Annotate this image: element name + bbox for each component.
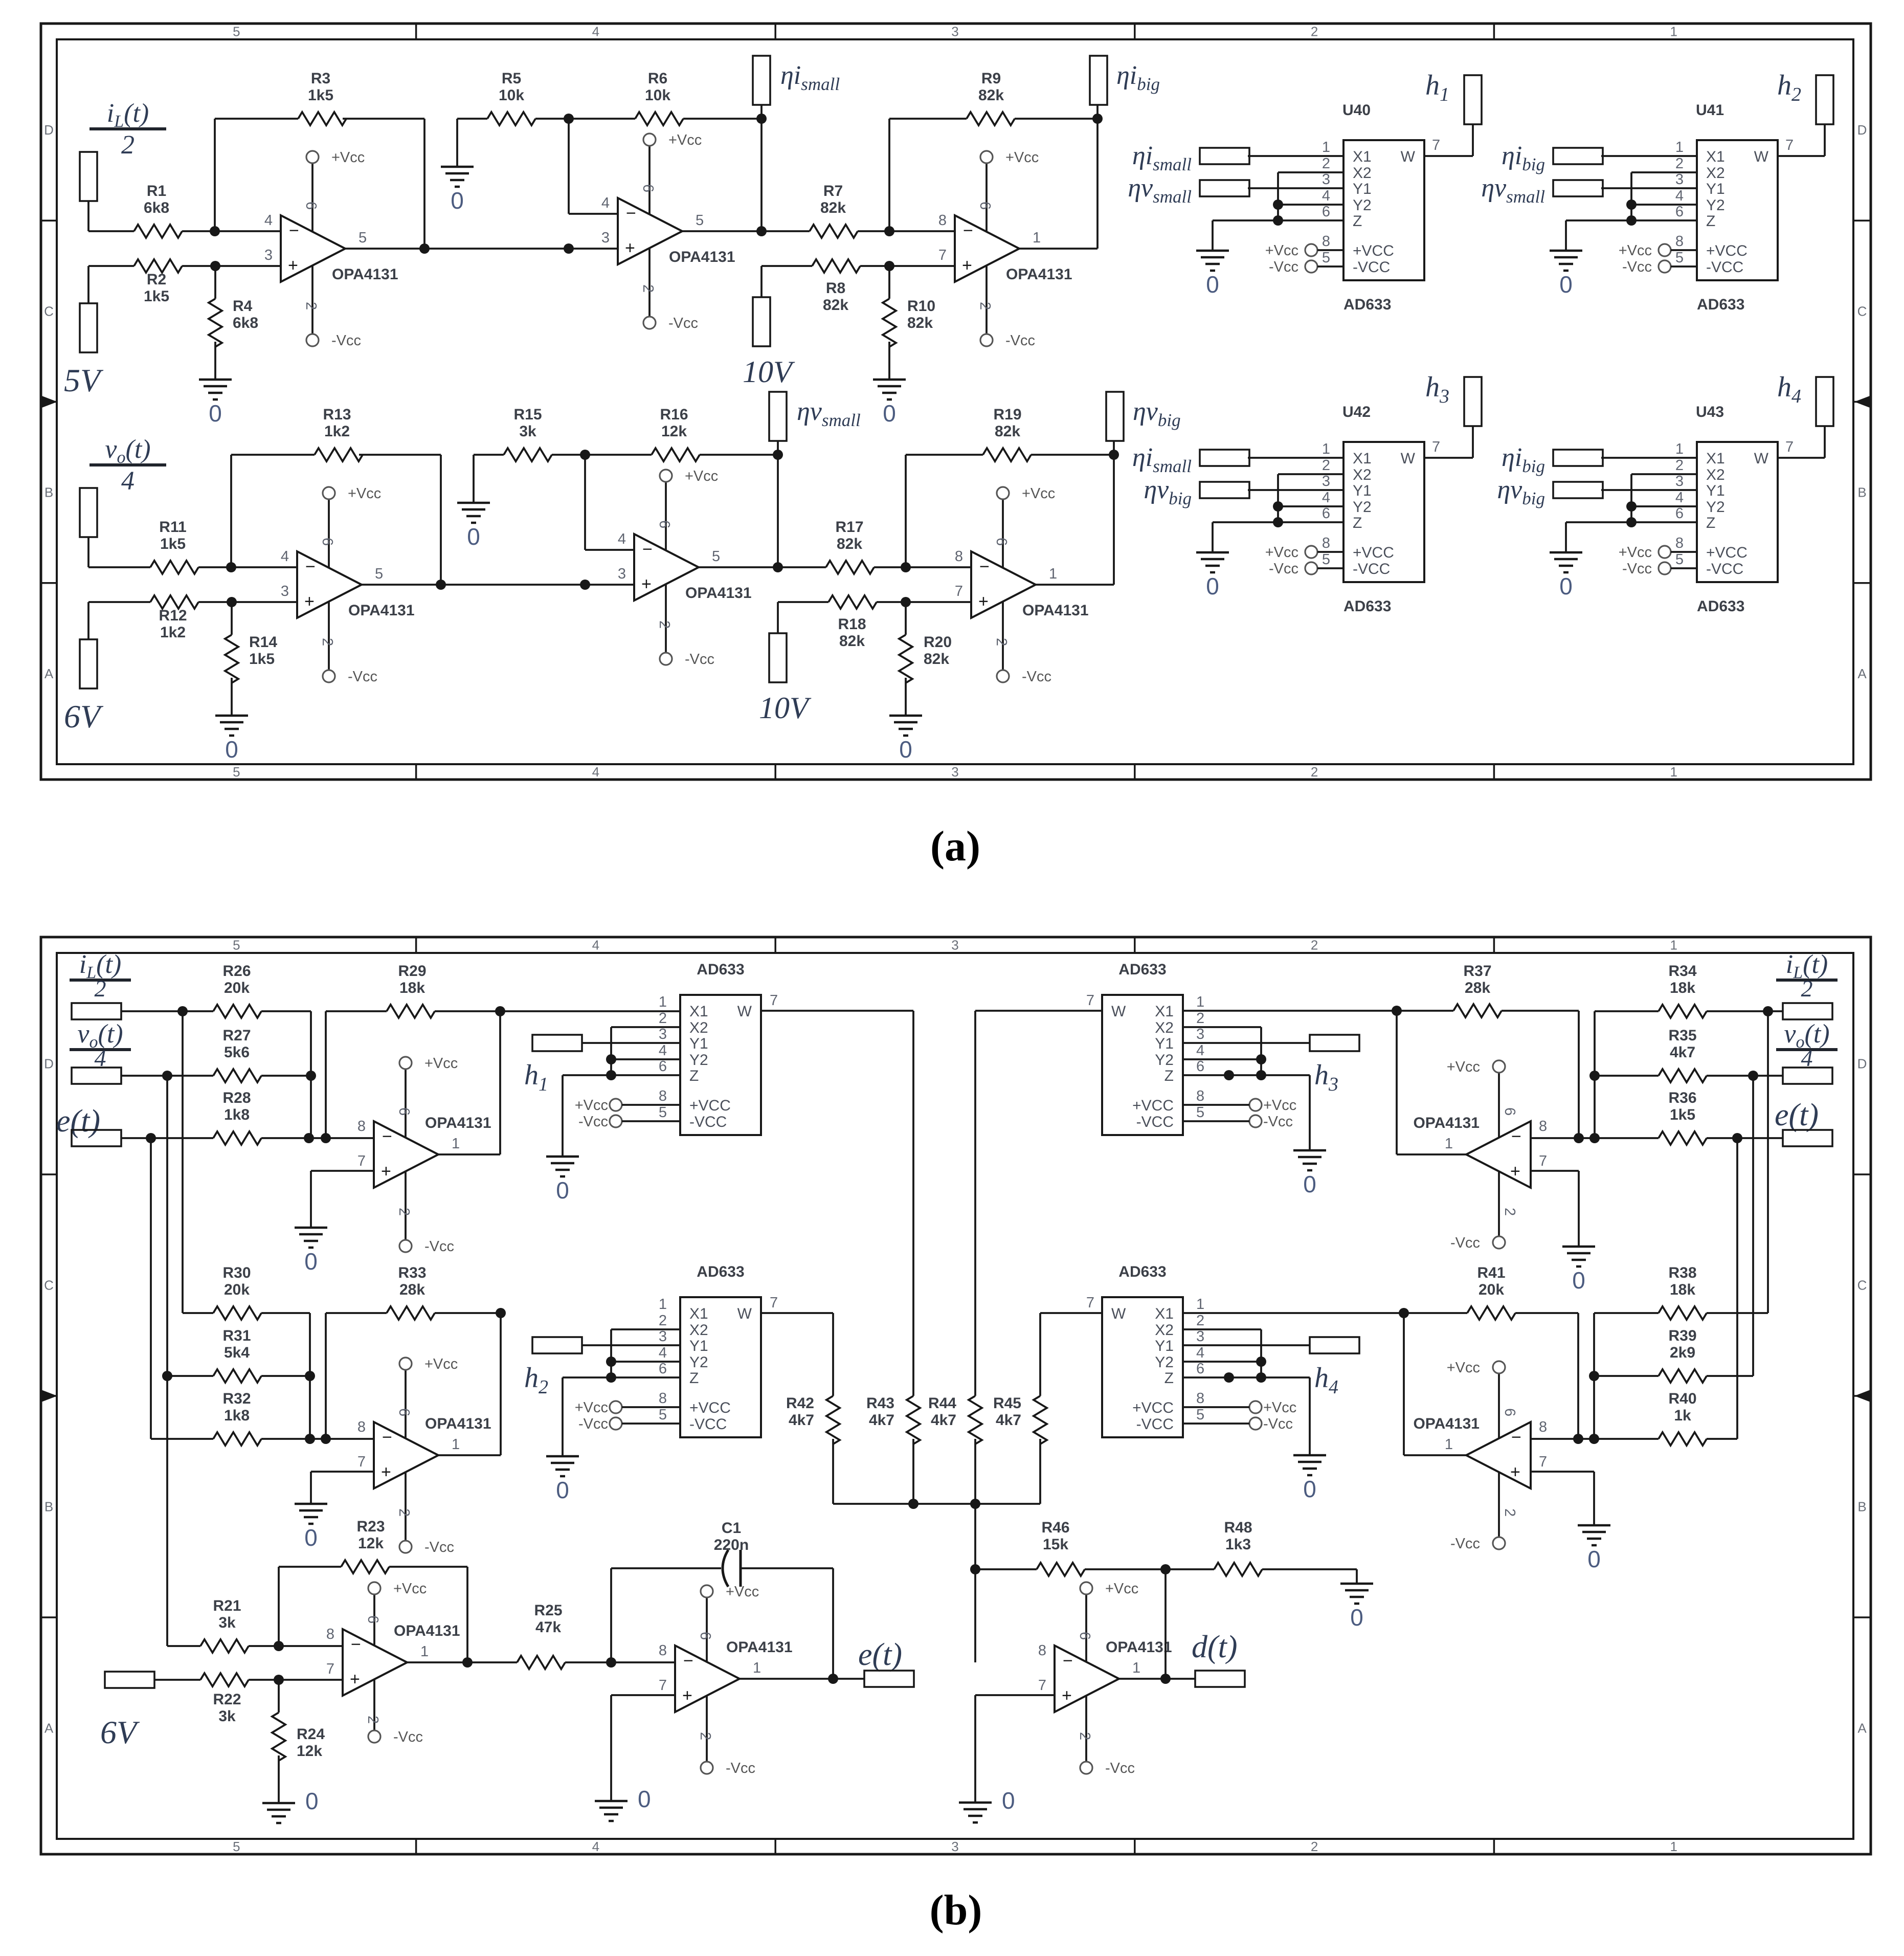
svg-text:7: 7 [1086, 992, 1094, 1009]
wire to R8 [761, 265, 812, 267]
svg-text:Z: Z [1164, 1370, 1174, 1387]
svg-text:C: C [44, 1278, 54, 1293]
op-amp U5D OPA4131 [675, 1646, 740, 1712]
svg-text:0: 0 [467, 523, 480, 550]
svg-text:4: 4 [264, 212, 273, 229]
ground [441, 166, 474, 168]
svg-text:4: 4 [592, 24, 599, 39]
junction M2 Y2 tie [606, 1357, 616, 1367]
svg-text:5: 5 [375, 566, 383, 582]
svg-text:1: 1 [1322, 139, 1330, 155]
junction R16/port [773, 450, 783, 460]
svg-text:7: 7 [1785, 439, 1794, 455]
sheet (a) frame column tick top 1 [415, 24, 417, 39]
svg-text:+Vcc: +Vcc [331, 149, 365, 166]
svg-text:−: − [382, 1127, 392, 1146]
wire U6B plus [1531, 1471, 1594, 1473]
svg-text:R21: R21 [213, 1597, 241, 1614]
svg-text:4: 4 [601, 195, 610, 211]
junction R10 [884, 261, 894, 271]
wire U5C out to R25 [407, 1661, 517, 1663]
svg-text:0: 0 [883, 400, 896, 427]
wire output stage1 to stage2 plus [345, 248, 618, 250]
multiplier M1 AD633 [680, 995, 761, 1135]
ground [959, 1802, 992, 1804]
svg-text:+Vcc: +Vcc [1619, 242, 1652, 259]
resistor R31 5k4 [213, 1369, 261, 1383]
svg-text:+: + [625, 238, 635, 258]
svg-text:1: 1 [1445, 1136, 1453, 1152]
resistor R15 3k [504, 448, 552, 461]
op-amp U1C OPA4131 [955, 215, 1019, 282]
junction R46 node [970, 1564, 980, 1574]
-Vcc terminal U40 [1305, 260, 1317, 273]
wire R25 to integrator minus [565, 1661, 675, 1663]
svg-text:4: 4 [659, 1042, 667, 1059]
wire U6B minus to R40 [1531, 1438, 1659, 1440]
junction stage3 minus [884, 226, 894, 236]
connector port P9 [769, 633, 787, 682]
wire Z to ground U40 [1212, 220, 1214, 251]
svg-text:4: 4 [121, 466, 135, 496]
wire R13 to corner [359, 454, 441, 456]
svg-text:+VCC: +VCC [1132, 1399, 1174, 1416]
svg-text:Y2: Y2 [1706, 499, 1725, 516]
svg-text:6k8: 6k8 [144, 199, 169, 216]
wire M3 Z [1183, 1074, 1310, 1076]
junction R39/vertical [1589, 1371, 1599, 1381]
wire port5 stub [1113, 441, 1115, 455]
wire M4 X1 rail [1183, 1312, 1404, 1314]
wire -VCC U42 [1317, 567, 1343, 569]
junction minus node [226, 562, 236, 572]
wire X1 input U41 [1601, 155, 1697, 157]
svg-text:0: 0 [1206, 573, 1219, 599]
wire Z U40 [1213, 219, 1343, 221]
svg-text:2: 2 [319, 638, 335, 646]
wire v_o to R27 [121, 1075, 213, 1077]
op-amp U2B OPA4131 [634, 534, 699, 601]
connector port P2 [80, 303, 97, 352]
svg-text:2: 2 [977, 302, 993, 310]
svg-text:15k: 15k [1043, 1536, 1068, 1553]
svg-text:4: 4 [1196, 1042, 1204, 1059]
svg-text:47k: 47k [535, 1619, 561, 1636]
svg-text:1: 1 [1670, 1839, 1677, 1854]
svg-text:5: 5 [1675, 551, 1684, 568]
resistor R28 1k8 [213, 1131, 261, 1145]
wire to R14 [231, 602, 233, 635]
connector port e(t) out [864, 1671, 914, 1687]
junction Z tie [1273, 517, 1283, 527]
svg-text:−: − [1511, 1428, 1521, 1447]
svg-text:-Vcc: -Vcc [393, 1729, 423, 1745]
svg-text:−: − [1511, 1127, 1521, 1146]
svg-text:6: 6 [365, 1615, 381, 1624]
svg-text:2: 2 [396, 1208, 412, 1216]
wire to R13 [231, 454, 315, 456]
svg-text:A: A [1857, 666, 1867, 681]
svg-text:R24: R24 [297, 1726, 325, 1743]
connector port P4 [753, 297, 770, 346]
wire M3 W output [975, 1010, 1102, 1012]
wire R23 to corner [389, 1566, 467, 1568]
op-amp U1A OPA4131 [281, 215, 345, 282]
svg-text:OPA4131: OPA4131 [332, 266, 398, 283]
wire port3 stub [777, 441, 779, 455]
wire node to R46 [975, 1568, 1037, 1570]
svg-text:R17: R17 [835, 519, 863, 536]
svg-text:A: A [1857, 1721, 1867, 1736]
svg-text:20k: 20k [1479, 1281, 1504, 1298]
svg-text:6: 6 [1322, 204, 1330, 220]
+Vcc terminal U43 [1659, 546, 1671, 558]
wire R41 to corner [1515, 1312, 1578, 1314]
svg-text:R7: R7 [823, 183, 843, 199]
wire output up to rail [1403, 1313, 1405, 1455]
wire R31 to vertical [261, 1375, 310, 1377]
wire to R3 [215, 118, 298, 120]
svg-text:−: − [642, 540, 653, 559]
svg-text:10V: 10V [743, 355, 795, 389]
wire R16 to junction [700, 454, 778, 456]
wire output up to feedback [1096, 119, 1099, 249]
-Vcc terminal U42 [1305, 562, 1317, 574]
svg-text:-Vcc: -Vcc [1263, 1416, 1293, 1432]
wire M1 X2 [611, 1026, 680, 1028]
resistor R7 82k [810, 225, 858, 238]
wire to R4 [214, 266, 216, 299]
svg-text:W: W [1754, 450, 1769, 467]
ground [262, 1802, 295, 1805]
connector port 6V [105, 1672, 154, 1688]
svg-text:X2: X2 [1155, 1019, 1174, 1036]
wire R28 to op-amp minus [261, 1137, 374, 1139]
connector port P8 [769, 392, 787, 441]
resistor R21 3k [200, 1639, 249, 1653]
svg-text:R20: R20 [924, 634, 952, 651]
svg-text:X2: X2 [689, 1322, 708, 1339]
svg-text:2: 2 [1322, 457, 1330, 474]
svg-text:R19: R19 [993, 406, 1021, 423]
wire R5 to R6 [535, 118, 635, 120]
svg-text:8: 8 [1675, 233, 1684, 250]
connector port U41 Y1 input [1553, 180, 1603, 196]
svg-text:7: 7 [1432, 137, 1440, 153]
wire X2-Y2-Z tie U42 [1277, 474, 1279, 522]
svg-text:1: 1 [1049, 566, 1057, 582]
ground [1562, 1246, 1595, 1248]
wire to R24 [278, 1680, 280, 1713]
wire M4 Z [1183, 1376, 1310, 1379]
+Vcc terminal U40 [1305, 244, 1317, 256]
svg-text:OPA4131: OPA4131 [394, 1622, 460, 1639]
svg-text:C: C [44, 303, 54, 319]
svg-text:R34: R34 [1668, 963, 1696, 980]
junction e tap [146, 1133, 156, 1143]
resistor R30 20k [213, 1306, 261, 1320]
sheet (a) frame column tick bottom 2 [774, 764, 776, 780]
junction R6/port [756, 114, 767, 124]
wire tap to R21 [167, 1645, 200, 1647]
svg-text:W: W [1111, 1003, 1126, 1020]
svg-text:Y1: Y1 [689, 1035, 708, 1052]
resistor R24 12k [272, 1713, 285, 1761]
junction summing node 1 [304, 1133, 314, 1143]
sheet (b) frame row tick right 3 [1853, 1616, 1871, 1618]
wire R22 to plus [249, 1679, 343, 1681]
sheet (a) frame right edge arrow [1854, 395, 1872, 409]
wire to R34 [1595, 1010, 1659, 1012]
wire M3 X1 rail [1183, 1010, 1397, 1012]
connector port h3 [1464, 377, 1482, 426]
svg-text:AD633: AD633 [697, 961, 744, 978]
sheet (a) frame column tick bottom 3 [1134, 764, 1136, 780]
wire feedback down [1164, 1569, 1167, 1679]
svg-text:R38: R38 [1668, 1264, 1696, 1281]
+Vcc terminal M4 [1249, 1401, 1262, 1413]
svg-text:4: 4 [1322, 188, 1330, 204]
junction Z tie [1626, 215, 1637, 226]
wire output up to rail [499, 1011, 501, 1154]
svg-text:R16: R16 [660, 406, 688, 423]
wire h4 to M4 Y1 [1183, 1344, 1310, 1346]
junction rail R43 [908, 1499, 919, 1509]
svg-text:C: C [1857, 303, 1867, 319]
svg-text:R8: R8 [826, 280, 845, 297]
wire feedback3 up [888, 119, 890, 231]
svg-text:−: − [979, 557, 990, 576]
ground [1293, 1454, 1326, 1457]
svg-text:R22: R22 [213, 1691, 241, 1708]
sheet (b) frame row tick left 3 [41, 1616, 57, 1618]
svg-text:4: 4 [592, 938, 599, 953]
svg-text:X2: X2 [1706, 165, 1725, 182]
svg-text:3: 3 [1196, 1328, 1204, 1345]
wire port5 stub [1096, 105, 1099, 119]
svg-text:U41: U41 [1696, 102, 1724, 119]
wire Z to ground U41 [1565, 220, 1567, 251]
junction M4 X1/output [1399, 1308, 1409, 1318]
svg-text:+Vcc: +Vcc [575, 1097, 608, 1114]
svg-text:−: − [626, 204, 636, 223]
op-amp U5A OPA4131 [374, 1121, 438, 1188]
wire v_o tap down to R31 [166, 1076, 168, 1376]
connector port i_L/2 (b left) [72, 1003, 121, 1019]
resistor R38 18k [1659, 1306, 1707, 1320]
svg-text:4: 4 [1196, 1345, 1204, 1361]
ground [199, 379, 232, 381]
svg-text:3: 3 [281, 583, 289, 599]
wire Y1 input U41 [1601, 187, 1697, 189]
wire Y2 U41 [1631, 204, 1697, 206]
svg-text:+Vcc: +Vcc [1619, 544, 1652, 561]
svg-text:0: 0 [451, 187, 464, 214]
wire feedback up to C1 [610, 1568, 612, 1662]
svg-text:AD633: AD633 [1343, 598, 1391, 615]
resistor R48 1k3 [1214, 1563, 1262, 1576]
svg-text:-Vcc: -Vcc [578, 1114, 608, 1130]
svg-text:82k: 82k [839, 633, 865, 650]
wire C1 to corner [741, 1567, 833, 1569]
svg-text:D: D [44, 122, 54, 138]
junction summing node C1 [305, 1434, 315, 1444]
svg-text:1: 1 [1675, 139, 1684, 155]
resistor R13 1k2 [315, 448, 363, 461]
svg-text:-VCC: -VCC [1353, 259, 1390, 276]
wire M3 X2 [1183, 1026, 1261, 1028]
svg-text:R5: R5 [502, 70, 521, 87]
wire R27 to vertical [261, 1075, 311, 1077]
junction minus node [210, 226, 220, 236]
wire R21 to minus [249, 1645, 343, 1647]
wire feedback down to output [440, 455, 442, 585]
svg-text:R3: R3 [311, 70, 330, 87]
svg-text:D: D [1857, 122, 1867, 138]
svg-text:+Vcc: +Vcc [1105, 1581, 1138, 1597]
wire to C1 [611, 1567, 721, 1569]
svg-text:D: D [1857, 1056, 1867, 1072]
wire rail to R37 [1397, 1010, 1453, 1012]
junction R5/R6 [564, 114, 574, 124]
svg-text:Z: Z [1353, 213, 1362, 230]
connector port i_L/2 (b right) [1783, 1003, 1832, 1019]
junction on stage2 plus wire [580, 580, 590, 590]
svg-text:82k: 82k [924, 651, 949, 668]
sheet (b) frame right edge arrow [1854, 1389, 1872, 1403]
sheet (b) frame column tick top 4 [1493, 937, 1495, 953]
svg-text:X1: X1 [1353, 148, 1372, 165]
junction R15/R16 [580, 450, 590, 460]
svg-text:1: 1 [1670, 24, 1677, 39]
junction R19/port/output [1109, 450, 1119, 460]
sheet (b) frame column tick bottom 3 [1134, 1839, 1136, 1854]
svg-text:8: 8 [659, 1088, 667, 1104]
svg-text:W: W [737, 1003, 752, 1020]
wire R15 to R16 [552, 454, 652, 456]
svg-text:X2: X2 [1155, 1322, 1174, 1339]
svg-text:6: 6 [659, 1058, 667, 1075]
svg-text:7: 7 [326, 1661, 334, 1677]
svg-text:6: 6 [303, 202, 319, 210]
wire e tap to R32 [151, 1438, 213, 1440]
wire R48 to ground corner [1262, 1568, 1357, 1570]
svg-text:+Vcc: +Vcc [1447, 1059, 1480, 1075]
svg-text:4: 4 [1675, 188, 1684, 204]
svg-text:U40: U40 [1342, 102, 1371, 119]
svg-text:Y1: Y1 [1706, 482, 1725, 499]
wire M1 +VCC [622, 1104, 680, 1106]
svg-text:+Vcc: +Vcc [1265, 242, 1298, 259]
svg-text:e(t): e(t) [56, 1104, 100, 1139]
wire M2 X2-Y2-Z tie [610, 1329, 612, 1377]
wire U5D plus [611, 1694, 675, 1696]
svg-text:AD633: AD633 [697, 1263, 744, 1280]
junction M3 Z [1224, 1070, 1234, 1080]
wire W output U42 [1424, 457, 1473, 459]
svg-text:+VCC: +VCC [1132, 1097, 1174, 1114]
wire U5A plus to ground [310, 1171, 312, 1228]
resistor R8 82k [812, 259, 860, 273]
sheet (b) frame column tick bottom 2 [774, 1839, 776, 1854]
svg-text:+Vcc: +Vcc [685, 468, 718, 484]
wire X2 U41 [1631, 171, 1697, 173]
svg-text:7: 7 [1086, 1295, 1094, 1311]
svg-text:6: 6 [697, 1632, 713, 1640]
svg-text:6: 6 [993, 538, 1010, 546]
svg-text:4: 4 [618, 531, 626, 547]
wire to R1 [88, 230, 134, 232]
wire U6A output [1397, 1153, 1466, 1155]
svg-text:2: 2 [1322, 155, 1330, 172]
resistor R45 4k7 [1034, 1396, 1047, 1444]
svg-text:-Vcc: -Vcc [424, 1238, 454, 1255]
wire R48 down to ground [1356, 1569, 1358, 1584]
svg-text:0: 0 [556, 1177, 569, 1204]
svg-text:2: 2 [640, 284, 656, 293]
svg-text:3: 3 [951, 1839, 958, 1854]
svg-text:8: 8 [659, 1390, 667, 1407]
svg-text:R39: R39 [1668, 1327, 1696, 1344]
svg-text:-Vcc: -Vcc [1269, 561, 1298, 577]
sheet (a) frame row tick right 2 [1853, 401, 1871, 403]
svg-text:2: 2 [656, 620, 673, 629]
wire R37 to corner [1502, 1010, 1579, 1012]
svg-text:A: A [44, 1721, 54, 1736]
wire -VCC U40 [1317, 265, 1343, 268]
svg-text:10k: 10k [499, 87, 524, 104]
svg-text:-VCC: -VCC [1706, 561, 1743, 577]
resistor R4 6k8 [209, 299, 222, 347]
svg-text:1: 1 [1033, 230, 1041, 246]
wire to R23 [279, 1566, 341, 1568]
svg-text:(a): (a) [930, 823, 980, 870]
junction U5D out [828, 1674, 838, 1684]
svg-text:3: 3 [1322, 171, 1330, 188]
resistor R40 1k [1659, 1432, 1707, 1446]
svg-text:R29: R29 [398, 963, 426, 980]
resistor R6 10k [635, 112, 683, 125]
svg-text:+VCC: +VCC [1706, 242, 1748, 259]
wire M4 X2 [1183, 1328, 1261, 1330]
resistor R39 2k9 [1659, 1369, 1707, 1383]
junction M3 X1/output [1392, 1006, 1402, 1016]
svg-text:−: − [963, 221, 973, 240]
svg-text:-Vcc: -Vcc [1105, 1760, 1135, 1776]
ground [546, 1455, 579, 1458]
wire R1 to op-amp minus [182, 230, 281, 232]
wire Y1 input U42 [1248, 489, 1343, 491]
svg-text:5V: 5V [64, 362, 104, 398]
svg-text:+: + [381, 1462, 391, 1482]
svg-text:5: 5 [1196, 1104, 1204, 1121]
junction Y2 tie [1626, 501, 1637, 512]
junction output/feedback [419, 243, 430, 254]
op-amp U2A OPA4131 [297, 551, 362, 618]
resistor R29 18k [387, 1005, 435, 1018]
+Vcc terminal M1 [610, 1099, 622, 1111]
svg-text:−: − [382, 1428, 392, 1447]
wire U5E output to d(t) [1119, 1678, 1195, 1680]
wire U5E plus to ground [974, 1695, 976, 1803]
-Vcc terminal M1 [610, 1115, 622, 1127]
wire down to stage2 minus [568, 119, 570, 214]
svg-text:U42: U42 [1342, 404, 1371, 420]
wire M4 +VCC [1183, 1406, 1249, 1408]
connector port h2 (b) [532, 1337, 582, 1353]
junction plus node [227, 597, 237, 607]
wire down to stage2 minus [584, 455, 586, 550]
